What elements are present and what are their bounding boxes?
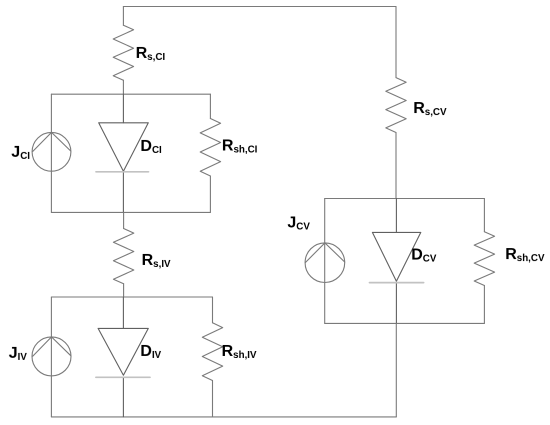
svg-text:JCI: JCI (11, 144, 30, 162)
wire box1 to R_s,IV (123, 212, 125, 228)
wire box3 top (325, 198, 485, 200)
svg-text:JIV: JIV (9, 345, 28, 363)
current source J_CV (305, 243, 345, 283)
wire box3 left (324, 199, 326, 324)
svg-text:DCI: DCI (140, 138, 162, 156)
wire box2 left (50, 297, 52, 417)
svg-text:DIV: DIV (140, 343, 161, 361)
svg-text:JCV: JCV (287, 214, 310, 232)
diode D_IV cathode bar (96, 376, 150, 378)
svg-text:Rs,IV: Rs,IV (142, 252, 171, 270)
resistor R_sh,IV (202, 297, 222, 417)
resistor R_s,CI (113, 7, 133, 95)
wire bottom bus (51, 416, 396, 418)
wire box3 bottom to bottom bus (395, 323, 397, 417)
diode D_IV (98, 297, 148, 417)
wire box2 top (51, 296, 212, 298)
resistor R_s,CV (386, 78, 406, 199)
wire top bus (123, 6, 396, 8)
wire box1 top (51, 93, 210, 95)
svg-text:Rs,CI: Rs,CI (136, 45, 166, 63)
wire box1 bottom (51, 211, 210, 213)
svg-text:Rs,CV: Rs,CV (413, 100, 447, 118)
wire box3 bottom (325, 322, 485, 324)
diode D_CI cathode bar (96, 171, 149, 173)
svg-text:Rsh,IV: Rsh,IV (222, 343, 257, 361)
diode D_CV cathode bar (370, 282, 424, 284)
current source J_IV (32, 337, 71, 376)
svg-text:Rsh,CV: Rsh,CV (505, 246, 545, 264)
svg-text:DCV: DCV (411, 246, 437, 264)
resistor R_sh,CV (474, 199, 494, 324)
wire top bus to R_s,CV (395, 7, 397, 78)
resistor R_sh,CI (200, 94, 220, 212)
diode D_CV (372, 199, 420, 324)
resistor R_s,IV (113, 229, 133, 298)
diode D_CI (99, 94, 149, 212)
current source J_CI (32, 132, 71, 171)
svg-text:Rsh,CI: Rsh,CI (222, 137, 258, 155)
wire box1 left (50, 94, 52, 212)
